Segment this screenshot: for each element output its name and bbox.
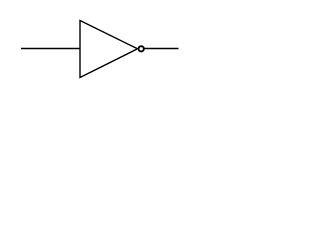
inverter U1 triangle [80, 21, 138, 78]
wire input [21, 48, 80, 50]
inversion bubble [139, 46, 144, 51]
wire output [145, 48, 179, 50]
